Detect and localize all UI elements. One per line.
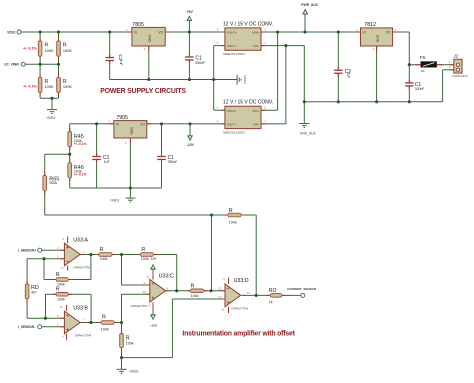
svg-text:7812: 7812	[364, 22, 376, 28]
svg-text:7905: 7905	[116, 115, 128, 121]
svg-text:GND: GND	[148, 35, 152, 43]
svg-text:VI: VI	[363, 31, 366, 35]
svg-text:11: 11	[221, 307, 224, 311]
svg-text:7805: 7805	[132, 22, 144, 28]
svg-text:+15V: +15V	[150, 324, 158, 328]
svg-text:U33:C: U33:C	[159, 274, 174, 280]
svg-text:GND: GND	[129, 127, 133, 135]
svg-text:11: 11	[61, 266, 64, 270]
svg-text:U33:D: U33:D	[234, 278, 249, 284]
svg-text:R: R	[141, 247, 145, 253]
svg-text:R: R	[191, 284, 195, 290]
svg-text:100k: 100k	[49, 181, 57, 185]
svg-text:13: 13	[218, 287, 222, 291]
svg-text:+5V: +5V	[186, 10, 193, 14]
svg-text:UC_VREF: UC_VREF	[4, 63, 19, 67]
svg-text:1uF: 1uF	[119, 60, 123, 66]
svg-text:I_SENSOR-: I_SENSOR-	[18, 325, 35, 329]
svg-text:10: 10	[143, 290, 147, 294]
svg-text:R: R	[126, 335, 130, 341]
svg-text:R: R	[100, 247, 104, 253]
svg-text:VOUT+: VOUT+	[227, 31, 237, 35]
svg-text:CURRENT_SENSOR: CURRENT_SENSOR	[287, 287, 317, 291]
svg-text:100k: 100k	[141, 257, 149, 261]
svg-text:CONN-DIL2: CONN-DIL2	[452, 74, 468, 78]
svg-text:330nF: 330nF	[195, 61, 205, 65]
svg-text:OPA4277PA: OPA4277PA	[131, 304, 148, 308]
svg-text:I_SENSOR+: I_SENSOR+	[18, 249, 36, 253]
svg-text:100K: 100K	[63, 84, 72, 89]
svg-text:VIN-: VIN-	[253, 123, 259, 127]
svg-text:330nF: 330nF	[415, 87, 425, 91]
svg-text:GND1: GND1	[130, 370, 139, 374]
svg-text:GND1: GND1	[243, 75, 247, 84]
svg-text:VDD1: VDD1	[7, 30, 16, 34]
svg-text:MEE3S1215SC: MEE3S1215SC	[223, 52, 245, 56]
svg-text:GND: GND	[376, 35, 380, 43]
svg-text:VIN-: VIN-	[253, 44, 259, 48]
svg-text:VI: VI	[116, 123, 119, 127]
svg-text:OPA4277PA: OPA4277PA	[232, 306, 249, 310]
svg-text:VO: VO	[386, 31, 391, 35]
svg-text:+/- 0.1%: +/- 0.1%	[74, 172, 87, 176]
svg-text:VO: VO	[140, 123, 145, 127]
svg-text:Instrumentation amplifier with: Instrumentation amplifier with offset	[182, 331, 295, 338]
svg-text:1uF: 1uF	[346, 73, 350, 79]
svg-text:12 V / 15 V DC CONV.: 12 V / 15 V DC CONV.	[223, 21, 273, 27]
svg-text:U33:A: U33:A	[73, 237, 88, 243]
svg-text:100k: 100k	[229, 220, 237, 224]
svg-text:OPA4277PA: OPA4277PA	[75, 334, 92, 338]
svg-text:GND_AUX: GND_AUX	[300, 131, 317, 135]
svg-text:-15V: -15V	[150, 257, 157, 261]
svg-text:100k: 100k	[101, 327, 109, 331]
svg-text:100k: 100k	[57, 298, 65, 302]
svg-text:4k7: 4k7	[31, 291, 37, 295]
svg-text:R: R	[229, 208, 233, 214]
svg-text:VOUT-: VOUT-	[227, 123, 236, 127]
svg-text:J2: J2	[452, 54, 458, 59]
svg-text:100K: 100K	[63, 48, 72, 53]
svg-text:330nF: 330nF	[168, 160, 178, 164]
svg-text:POWER SUPPLY CIRCUITS: POWER SUPPLY CIRCUITS	[100, 88, 186, 95]
svg-text:11: 11	[60, 305, 63, 309]
svg-text:VOUT+: VOUT+	[227, 109, 237, 113]
svg-text:VIN+: VIN+	[252, 31, 259, 35]
svg-text:100k: 100k	[126, 342, 134, 346]
svg-text:1uF: 1uF	[104, 160, 110, 164]
svg-text:PWR_AUX: PWR_AUX	[301, 3, 318, 7]
svg-text:R: R	[56, 272, 60, 278]
svg-text:11: 11	[146, 275, 149, 279]
svg-text:R: R	[56, 287, 60, 293]
svg-text:F6: F6	[420, 55, 426, 60]
svg-text:VI: VI	[134, 31, 137, 35]
svg-text:100K: 100K	[45, 48, 54, 53]
svg-text:+/- 0.1%: +/- 0.1%	[23, 46, 38, 50]
svg-text:1k: 1k	[269, 300, 273, 304]
svg-text:MEE3S1215SC: MEE3S1215SC	[223, 131, 245, 135]
svg-text:+/- 0.1%: +/- 0.1%	[74, 142, 87, 146]
svg-text:U33:B: U33:B	[73, 305, 88, 311]
svg-text:-15V: -15V	[187, 143, 195, 147]
svg-text:VOUT-: VOUT-	[227, 44, 236, 48]
svg-text:GND1: GND1	[47, 116, 56, 120]
svg-text:1A: 1A	[421, 69, 425, 73]
svg-text:GND1: GND1	[110, 198, 119, 202]
svg-text:+/- 0.1%: +/- 0.1%	[23, 84, 38, 88]
svg-text:12: 12	[218, 295, 222, 299]
svg-text:OPA4277PA: OPA4277PA	[73, 266, 90, 270]
svg-text:14: 14	[247, 291, 251, 295]
svg-text:100k: 100k	[100, 257, 108, 261]
svg-text:VIN+: VIN+	[252, 109, 259, 113]
svg-text:VO: VO	[158, 31, 163, 35]
svg-text:R: R	[102, 314, 106, 320]
svg-text:100K: 100K	[45, 84, 54, 89]
svg-text:RO: RO	[269, 288, 277, 294]
svg-text:100k: 100k	[191, 294, 199, 298]
